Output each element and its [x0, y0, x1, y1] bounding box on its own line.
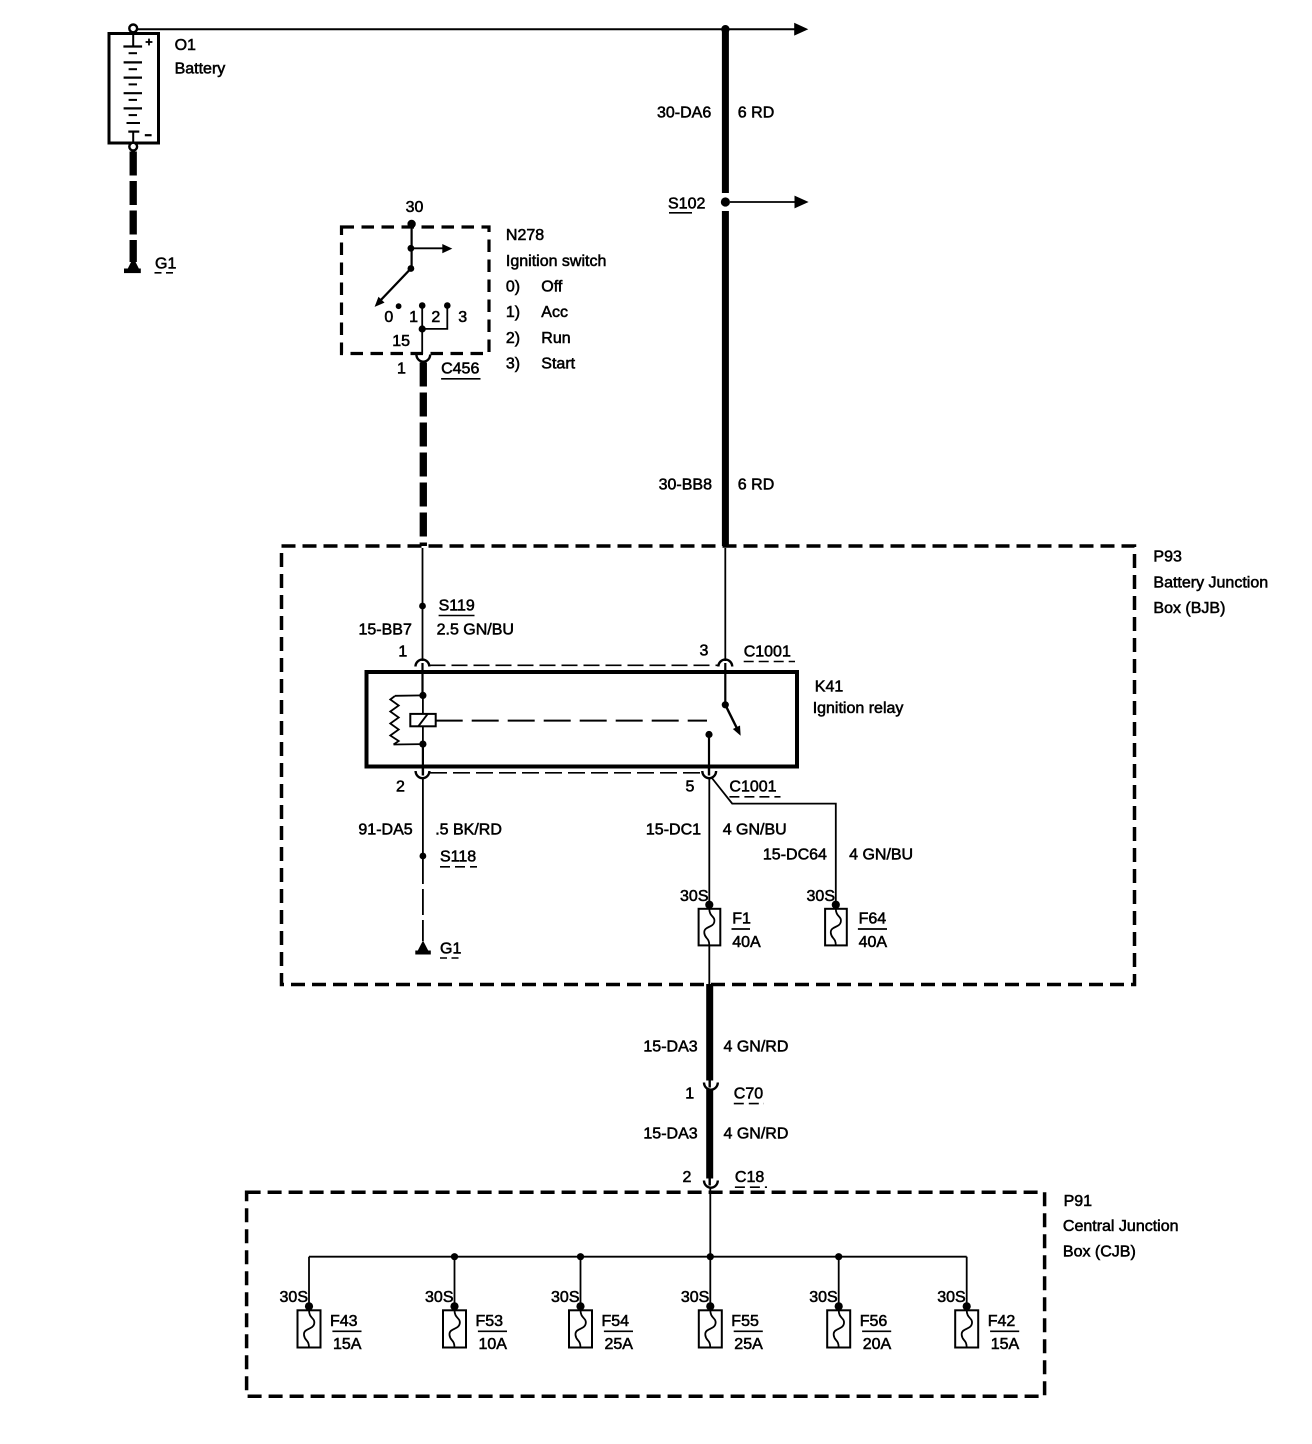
- node relay output contact: [705, 731, 712, 738]
- svg-text:Ignition relay: Ignition relay: [813, 700, 904, 717]
- wire stub pin5 below relay: [708, 766, 710, 776]
- node terminal 15 junction: [419, 325, 426, 332]
- svg-text:30S: 30S: [681, 1289, 709, 1306]
- wire coil lower stub: [422, 726, 424, 744]
- svg-text:Acc: Acc: [541, 304, 568, 321]
- wire terminal 15 down: [421, 329, 423, 354]
- svg-text:15A: 15A: [991, 1336, 1020, 1353]
- svg-text:3: 3: [458, 309, 467, 326]
- svg-text:G1: G1: [155, 256, 176, 273]
- fuse F42: [955, 1310, 978, 1347]
- svg-text:91-DA5: 91-DA5: [358, 822, 412, 839]
- node fuse F43 top: [305, 1302, 313, 1310]
- relay switch blade: [725, 705, 738, 732]
- svg-text:C18: C18: [735, 1169, 764, 1186]
- node S102: [721, 197, 730, 206]
- wire from C456 into BJB (thin): [422, 548, 424, 661]
- svg-text:Ignition switch: Ignition switch: [506, 253, 607, 270]
- node fuse F42 top: [963, 1302, 971, 1310]
- svg-text:1: 1: [398, 644, 407, 661]
- svg-text:G1: G1: [440, 941, 461, 958]
- svg-text:S118: S118: [440, 849, 476, 866]
- connector C1001 dashed link (bottom): [430, 772, 702, 774]
- svg-text:15-DA3: 15-DA3: [643, 1126, 697, 1143]
- battery junction box P93 (dashed): [282, 546, 1135, 985]
- svg-text:3): 3): [506, 356, 520, 373]
- svg-text:N278: N278: [506, 227, 544, 244]
- svg-text:Box (BJB): Box (BJB): [1153, 600, 1225, 617]
- svg-text:5: 5: [686, 779, 695, 796]
- wire battery positive feed (top horizontal): [135, 28, 795, 30]
- svg-text:0): 0): [506, 279, 520, 296]
- node bus junction F54: [577, 1253, 584, 1260]
- svg-text:O1: O1: [175, 37, 196, 54]
- svg-text:3: 3: [700, 643, 709, 660]
- svg-text:Battery Junction: Battery Junction: [1153, 574, 1268, 591]
- central junction box P91 (dashed): [247, 1192, 1045, 1396]
- svg-text:2: 2: [431, 309, 440, 326]
- wire ignition switch output (thick dashed): [420, 363, 427, 547]
- wire 91-DA5 pin2 to S118: [422, 778, 424, 858]
- svg-text:K41: K41: [815, 679, 844, 696]
- svg-text:30S: 30S: [280, 1289, 308, 1306]
- connector bump C456: [416, 355, 430, 362]
- battery O1: [109, 25, 159, 151]
- contact 2: [444, 302, 451, 309]
- svg-text:4 GN/RD: 4 GN/RD: [724, 1126, 789, 1143]
- fuse F56: [827, 1310, 850, 1347]
- wire stub pin3 into relay: [724, 663, 726, 705]
- connector bump C18: [704, 1181, 718, 1188]
- relay coil winding (zigzag): [390, 696, 398, 745]
- svg-text:30S: 30S: [807, 888, 835, 905]
- svg-text:20A: 20A: [863, 1336, 892, 1353]
- contact 1: [419, 302, 426, 309]
- wire 30-DA6 thick vertical (upper): [722, 29, 729, 193]
- ground G1 (BJB): [415, 941, 431, 955]
- wire F1 bottom to BJB border: [708, 945, 710, 984]
- node switch arm pivot: [408, 245, 415, 252]
- fuse F64: [825, 909, 847, 946]
- wire battery negative to ground G1 (thick dashed): [130, 152, 137, 263]
- node junction at 30-DA6 top: [721, 25, 729, 33]
- svg-text:1: 1: [685, 1086, 694, 1103]
- svg-text:Box (CJB): Box (CJB): [1063, 1244, 1136, 1261]
- battery minus terminal label: [145, 134, 152, 136]
- wire stub pin2 below relay: [422, 766, 424, 776]
- svg-text:15-BB7: 15-BB7: [359, 622, 412, 639]
- node fuse F53 top: [450, 1302, 458, 1310]
- wire S102 branch right: [730, 201, 795, 203]
- svg-text:F56: F56: [860, 1313, 888, 1330]
- ground G1 (battery): [124, 258, 141, 274]
- svg-text:30-DA6: 30-DA6: [657, 105, 711, 122]
- node fuse F1 top: [705, 901, 713, 909]
- wire 30-DA6 thick vertical (lower): [722, 211, 729, 546]
- svg-text:40A: 40A: [859, 934, 888, 951]
- svg-text:6 RD: 6 RD: [738, 105, 774, 122]
- node bus junction main feed: [707, 1253, 714, 1260]
- svg-text:2): 2): [506, 330, 520, 347]
- wire 30-BB8 inside BJB (thin): [724, 548, 726, 661]
- bus bar in CJB: [309, 1256, 967, 1258]
- svg-text:Off: Off: [541, 279, 563, 296]
- svg-text:F53: F53: [476, 1313, 504, 1330]
- svg-text:1: 1: [409, 309, 418, 326]
- wire S118 to ground: [422, 858, 424, 941]
- svg-text:.5 BK/RD: .5 BK/RD: [435, 822, 502, 839]
- connector bump pin 3: [718, 660, 732, 667]
- svg-text:25A: 25A: [605, 1336, 634, 1353]
- svg-text:15: 15: [392, 333, 410, 350]
- svg-text:C70: C70: [734, 1086, 763, 1103]
- wire 15-DA3 thick (C70 to C18): [706, 1089, 713, 1179]
- svg-text:0: 0: [384, 309, 393, 326]
- wire 15-DC1 pin5 down: [708, 778, 710, 905]
- wire arrow branch in switch: [412, 247, 444, 249]
- svg-text:6 RD: 6 RD: [738, 477, 774, 494]
- svg-text:C456: C456: [441, 361, 479, 378]
- svg-text:15-DC64: 15-DC64: [763, 847, 827, 864]
- fuse F42 drop wire: [966, 1257, 968, 1306]
- node S118: [420, 853, 427, 860]
- svg-text:10A: 10A: [479, 1336, 508, 1353]
- wire 15-DC64 branch (diagonal + horizontal + vertical): [712, 778, 836, 905]
- fuse F54 drop wire: [580, 1257, 582, 1306]
- svg-text:30S: 30S: [425, 1289, 453, 1306]
- fuse F56 drop wire: [838, 1257, 840, 1306]
- svg-text:30S: 30S: [680, 888, 708, 905]
- node blade pivot: [408, 265, 415, 272]
- svg-text:30: 30: [406, 199, 424, 216]
- connector bump C70: [704, 1083, 718, 1090]
- connector bump pin 2: [416, 771, 430, 778]
- wire coil bottom lead: [394, 743, 423, 745]
- svg-text:30S: 30S: [937, 1289, 965, 1306]
- fuse F53: [443, 1310, 466, 1347]
- svg-text:40A: 40A: [732, 934, 761, 951]
- wire contact 1 down: [421, 306, 423, 330]
- wire stub pin1 into relay: [421, 663, 423, 695]
- node coil bottom: [419, 741, 426, 748]
- svg-text:F54: F54: [602, 1313, 630, 1330]
- node bus junction F56: [835, 1253, 842, 1260]
- svg-text:4 GN/BU: 4 GN/BU: [849, 847, 913, 864]
- svg-text:S102: S102: [668, 196, 705, 213]
- fuse F43 drop wire: [308, 1257, 310, 1306]
- svg-text:15-DA3: 15-DA3: [643, 1039, 697, 1056]
- svg-text:1: 1: [397, 361, 406, 378]
- svg-text:S119: S119: [439, 598, 475, 615]
- fuse F53 drop wire: [454, 1257, 456, 1306]
- connector C1001 dashed link (top): [430, 664, 719, 666]
- fuse F55: [699, 1310, 722, 1347]
- svg-text:2: 2: [396, 779, 405, 796]
- svg-text:Start: Start: [541, 356, 575, 373]
- svg-text:2: 2: [683, 1169, 692, 1186]
- node fuse F64 top: [832, 901, 840, 909]
- arrow S102 branch: [795, 196, 809, 209]
- svg-text:25A: 25A: [734, 1336, 763, 1353]
- svg-text:30-BB8: 30-BB8: [659, 477, 712, 494]
- fuse F54: [569, 1310, 592, 1347]
- wire contact 3 down and left: [423, 306, 447, 329]
- node bus junction F53: [451, 1253, 458, 1260]
- relay actuator dashed link: [436, 720, 707, 722]
- svg-text:4 GN/RD: 4 GN/RD: [724, 1039, 789, 1056]
- svg-text:C1001: C1001: [729, 779, 776, 796]
- node fuse F54 top: [576, 1302, 584, 1310]
- node pin 30: [407, 220, 415, 228]
- wire 15-DA3 thick (BJB to C70): [706, 984, 713, 1081]
- svg-text:P93: P93: [1153, 549, 1182, 566]
- battery plus terminal label: [146, 41, 153, 43]
- node coil top: [419, 692, 426, 699]
- svg-text:F43: F43: [330, 1313, 358, 1330]
- wire C18 into CJB (thin): [709, 1188, 711, 1257]
- wire coil top lead: [395, 694, 423, 696]
- svg-text:F1: F1: [732, 911, 751, 928]
- fuse F1: [699, 909, 721, 946]
- svg-text:C1001: C1001: [744, 644, 791, 661]
- fuse F55 drop wire: [709, 1257, 711, 1306]
- svg-text:30S: 30S: [809, 1289, 837, 1306]
- svg-text:15-DC1: 15-DC1: [646, 822, 701, 839]
- node relay common (pin3): [722, 701, 729, 708]
- svg-text:15A: 15A: [333, 1336, 362, 1353]
- node fuse F55 top: [706, 1302, 714, 1310]
- node fuse F56 top: [835, 1302, 843, 1310]
- contact 0: [396, 303, 402, 309]
- svg-text:Central Junction: Central Junction: [1063, 1218, 1179, 1235]
- svg-text:Battery: Battery: [175, 61, 226, 78]
- ignition switch N278 box: [342, 227, 490, 354]
- wire coil to pin2: [422, 744, 424, 766]
- arrow feed continuation right: [794, 23, 808, 36]
- svg-text:P91: P91: [1064, 1193, 1093, 1210]
- connector bump pin 1: [416, 660, 430, 667]
- wire relay output to pin5: [708, 735, 710, 767]
- svg-text:F55: F55: [731, 1313, 759, 1330]
- node S119: [419, 603, 426, 610]
- svg-text:F64: F64: [859, 911, 887, 928]
- svg-text:1): 1): [506, 304, 520, 321]
- fuse F43: [298, 1310, 321, 1347]
- svg-text:Run: Run: [541, 330, 570, 347]
- svg-text:F42: F42: [988, 1313, 1016, 1330]
- relay coil core box: [410, 714, 435, 726]
- wire coil upper stub: [422, 695, 424, 714]
- svg-text:4 GN/BU: 4 GN/BU: [723, 822, 787, 839]
- battery terminal circles: [129, 25, 137, 33]
- connector bump pin 5: [702, 771, 716, 778]
- svg-text:30S: 30S: [551, 1289, 579, 1306]
- ignition relay K41 box: [367, 672, 798, 767]
- wire switch common: [411, 224, 413, 269]
- switch blade (wiper): [379, 269, 411, 303]
- svg-text:2.5 GN/BU: 2.5 GN/BU: [437, 622, 514, 639]
